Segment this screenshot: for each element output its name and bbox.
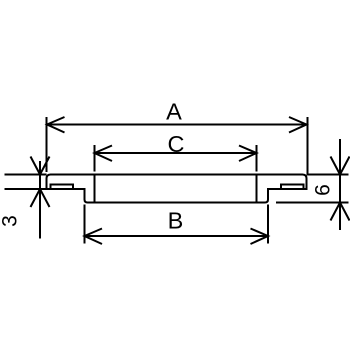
- extension line A left: [46, 117, 48, 172]
- arrowhead B left: [85, 229, 103, 245]
- bottom profile: tab bottoms, skirt steps and skirt bottom: [47, 189, 308, 203]
- extension line bottom-right for dim 6: [276, 202, 349, 204]
- arrowhead A right: [289, 117, 307, 133]
- arrowhead dim 3 lower (points up at y=189): [31, 189, 50, 207]
- dimension line 6 (vertical): [339, 139, 341, 230]
- svg-text:6: 6: [312, 184, 335, 196]
- arrowhead B right: [251, 229, 269, 245]
- svg-text:C: C: [168, 131, 185, 157]
- extension line B left: [84, 205, 86, 244]
- dimension line 3 (vertical): [39, 161, 41, 239]
- arrowhead dim 3 upper (points down at y=174.5): [31, 157, 50, 175]
- arrowhead C left: [95, 146, 113, 162]
- arrowhead A left: [47, 117, 65, 133]
- extension line C right: [256, 145, 258, 172]
- inner skirt wall left: [94, 175, 96, 202]
- groove step in right tab: [281, 185, 304, 189]
- extension line top-right for dim 6: [307, 174, 349, 176]
- dimension line A: [47, 124, 307, 126]
- arrowhead dim 6 lower (points up at y=202.5): [331, 203, 350, 221]
- extension line C left: [94, 145, 96, 172]
- arrowhead C right: [239, 146, 257, 162]
- arrowhead dim 6 upper (points down at y=174.5): [331, 157, 350, 175]
- inner skirt wall right: [256, 175, 258, 202]
- dimension line C: [95, 152, 257, 154]
- extension line top-left for dim 3: [5, 174, 47, 176]
- flange top outline (top surface with rounded outer corners and outer edges): [47, 175, 307, 190]
- svg-text:3: 3: [0, 215, 22, 227]
- extension line bottom-left for dim 3: [5, 188, 47, 190]
- extension line A right: [307, 117, 309, 174]
- extension line B right: [267, 205, 269, 244]
- svg-text:A: A: [166, 99, 182, 125]
- groove step in left tab: [51, 185, 74, 189]
- dimension line B: [85, 235, 269, 237]
- svg-text:B: B: [168, 208, 184, 234]
